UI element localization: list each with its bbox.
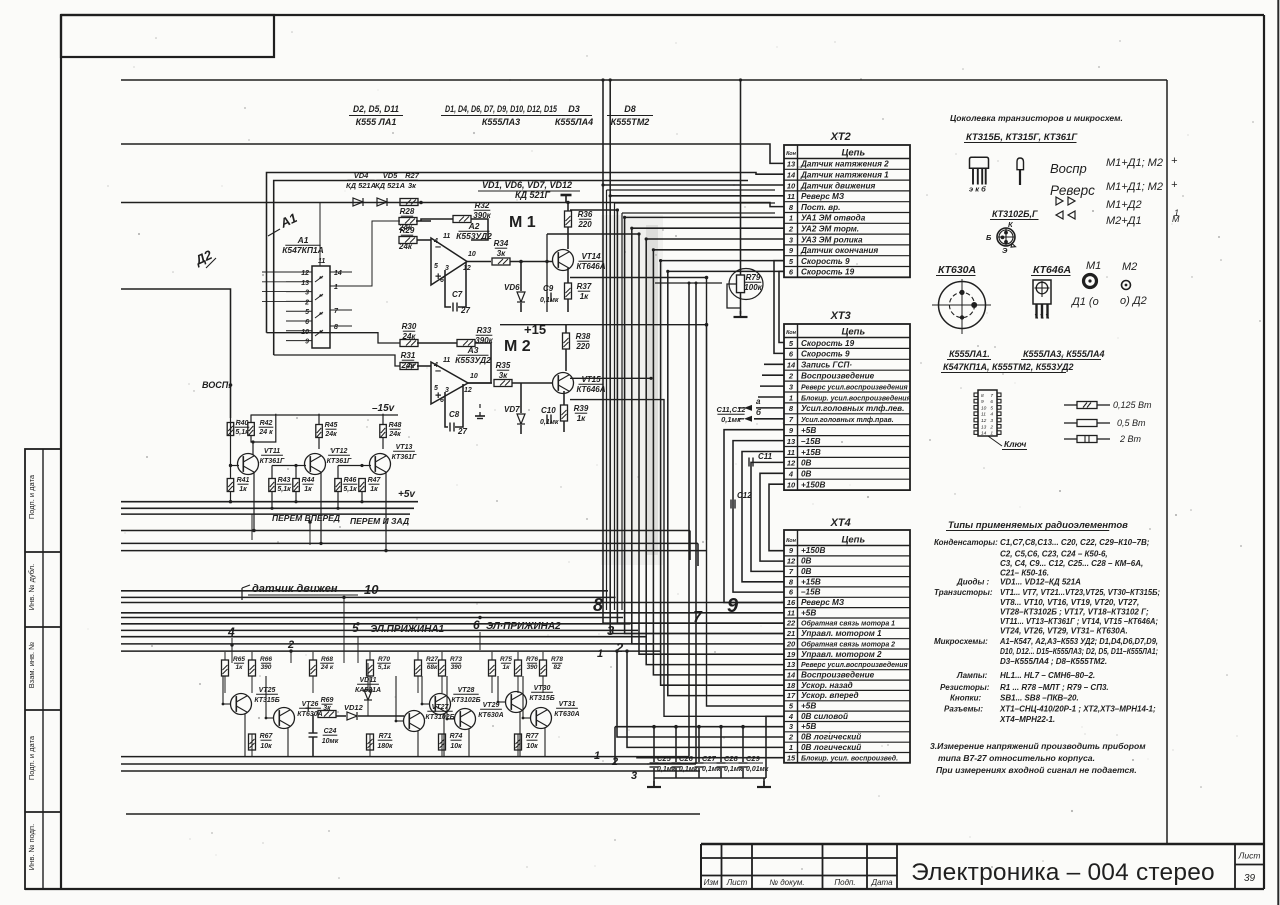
svg-text:10к: 10к [450, 743, 462, 750]
svg-text:220: 220 [575, 342, 590, 351]
svg-text:Э: Э [1002, 246, 1008, 255]
svg-text:4: 4 [788, 712, 794, 721]
svg-text:22: 22 [786, 619, 796, 628]
svg-text:Блокир. усил. воспроизвед.: Блокир. усил. воспроизвед. [801, 754, 898, 762]
svg-text:Пост. вр.: Пост. вр. [801, 203, 840, 212]
svg-text:К555ТМ2: К555ТМ2 [611, 117, 650, 127]
svg-text:0В: 0В [801, 557, 812, 566]
svg-text:+: + [1171, 179, 1178, 191]
svg-text:8: 8 [981, 393, 984, 399]
svg-text:Реверс МЗ: Реверс МЗ [801, 192, 845, 201]
svg-text:6: 6 [990, 399, 993, 405]
svg-text:+5В: +5В [801, 702, 816, 711]
svg-text:9: 9 [305, 339, 309, 346]
svg-text:R75: R75 [500, 656, 512, 663]
svg-text:Изм: Изм [704, 878, 719, 887]
svg-text:3: 3 [631, 770, 637, 782]
svg-text:Усил.головных тлф.лев.: Усил.головных тлф.лев. [801, 404, 904, 413]
svg-text:Электроника – 004 стерео: Электроника – 004 стерео [911, 859, 1215, 886]
svg-text:14: 14 [981, 431, 987, 437]
svg-text:2: 2 [287, 639, 294, 651]
svg-text:4: 4 [788, 470, 794, 479]
svg-text:6: 6 [440, 277, 444, 284]
svg-text:С3, С4, С9... С12, С25... С28: С3, С4, С9... С12, С25... С28 – КМ–6А, [1000, 559, 1143, 568]
svg-text:С26: С26 [679, 754, 694, 763]
svg-text:18: 18 [787, 681, 796, 690]
svg-text:С9: С9 [543, 284, 554, 293]
svg-text:Кон: Кон [786, 538, 797, 544]
svg-text:№ докум.: № докум. [769, 878, 804, 887]
svg-text:А3: А3 [467, 345, 479, 355]
svg-text:Д1 (о: Д1 (о [1070, 296, 1099, 308]
svg-text:2: 2 [788, 733, 794, 742]
svg-text:4: 4 [227, 625, 235, 639]
svg-text:+15В: +15В [801, 577, 821, 586]
svg-text:КД 521Г: КД 521Г [515, 190, 551, 200]
svg-text:М 2: М 2 [504, 338, 531, 355]
svg-text:220: 220 [577, 220, 592, 229]
svg-text:R73: R73 [450, 656, 462, 663]
svg-text:5: 5 [305, 309, 309, 316]
svg-text:КТ646А: КТ646А [576, 262, 605, 271]
svg-text:ХТ4: ХТ4 [830, 517, 851, 529]
svg-text:4: 4 [433, 362, 438, 369]
svg-text:12: 12 [981, 418, 987, 424]
svg-text:КТ315Б, КТ315Г, КТ361Г: КТ315Б, КТ315Г, КТ361Г [966, 132, 1078, 143]
svg-text:4: 4 [433, 238, 438, 245]
svg-text:Типы применяемых радиоэлементо: Типы применяемых радиоэлементов [948, 520, 1128, 531]
svg-text:R27: R27 [426, 656, 438, 663]
svg-text:VT15: VT15 [581, 375, 601, 384]
svg-text:15: 15 [787, 753, 796, 762]
svg-text:КТ3102Б,Г: КТ3102Б,Г [992, 209, 1038, 219]
svg-text:0В: 0В [801, 459, 812, 468]
svg-text:4: 4 [990, 412, 993, 418]
svg-text:Датчик окончания: Датчик окончания [800, 246, 878, 255]
svg-text:а: а [756, 397, 761, 406]
svg-text:КТ361Г: КТ361Г [392, 454, 417, 461]
svg-text:КТ630А: КТ630А [938, 264, 976, 276]
svg-text:+5В: +5В [801, 722, 816, 731]
svg-text:R35: R35 [496, 361, 511, 370]
svg-text:Управл. мотором 1: Управл. мотором 1 [801, 629, 882, 638]
svg-text:КТ315Б: КТ315Б [529, 695, 554, 702]
svg-text:12: 12 [787, 557, 796, 566]
svg-text:2 Вт: 2 Вт [1119, 434, 1142, 444]
svg-text:R38: R38 [576, 332, 591, 341]
svg-text:R76: R76 [526, 656, 538, 663]
svg-text:С8: С8 [449, 410, 460, 419]
svg-text:R77: R77 [526, 733, 540, 740]
svg-text:13: 13 [787, 160, 796, 169]
svg-text:Подп. и дата: Подп. и дата [27, 735, 36, 780]
svg-text:10: 10 [301, 329, 309, 336]
svg-text:3.Измерение напряжений произво: 3.Измерение напряжений производить прибо… [930, 741, 1146, 751]
svg-text:+15В: +15В [801, 448, 821, 457]
svg-text:11: 11 [318, 258, 325, 265]
svg-text:R34: R34 [494, 239, 509, 248]
svg-text:24 к: 24 к [320, 664, 334, 671]
svg-text:С10: С10 [541, 406, 556, 415]
svg-text:К553УД2: К553УД2 [455, 355, 491, 365]
svg-text:12: 12 [463, 265, 471, 272]
svg-text:R74: R74 [450, 733, 463, 740]
svg-text:5: 5 [990, 405, 993, 411]
svg-text:12: 12 [301, 270, 309, 277]
svg-text:20: 20 [786, 639, 796, 648]
svg-text:R43: R43 [278, 477, 291, 484]
svg-text:К555ЛА1.: К555ЛА1. [949, 349, 990, 359]
svg-text:D3: D3 [568, 104, 580, 114]
svg-text:13: 13 [787, 437, 796, 446]
svg-text:датчик движен: датчик движен [252, 583, 338, 595]
svg-text:10к: 10к [526, 743, 538, 750]
svg-text:КД 521А: КД 521А [346, 181, 376, 190]
svg-text:10мк: 10мк [322, 738, 339, 745]
svg-text:0,5 Вт: 0,5 Вт [1117, 418, 1146, 428]
svg-text:3к: 3к [408, 181, 417, 190]
svg-text:8: 8 [593, 595, 603, 615]
svg-text:КТ361Г: КТ361Г [260, 458, 285, 465]
svg-text:1: 1 [594, 750, 600, 762]
svg-text:1к: 1к [304, 486, 312, 493]
svg-text:VT25: VT25 [259, 687, 276, 694]
svg-text:11: 11 [443, 357, 450, 364]
svg-text:VD12: VD12 [344, 703, 364, 712]
svg-text:1: 1 [597, 648, 603, 660]
svg-text:11: 11 [787, 192, 795, 201]
svg-text:11: 11 [787, 608, 795, 617]
svg-text:ПЕРЕМ ВПЕРЕД: ПЕРЕМ ВПЕРЕД [272, 513, 340, 523]
svg-text:+150В: +150В [801, 481, 825, 490]
svg-text:2: 2 [989, 424, 993, 430]
svg-text:82: 82 [553, 664, 561, 671]
svg-text:11: 11 [443, 233, 450, 240]
svg-text:К555 ЛА1: К555 ЛА1 [356, 117, 397, 127]
svg-text:11: 11 [787, 448, 795, 457]
svg-text:R70: R70 [378, 656, 390, 663]
svg-text:Скорость 9: Скорость 9 [801, 350, 850, 359]
svg-text:С24: С24 [324, 728, 337, 735]
svg-text:16: 16 [787, 598, 796, 607]
svg-text:39: 39 [1244, 873, 1256, 884]
svg-text:Ключ: Ключ [1004, 439, 1026, 449]
svg-text:С29: С29 [746, 754, 761, 763]
svg-text:390: 390 [527, 664, 538, 671]
svg-text:1к: 1к [503, 664, 511, 671]
svg-text:390: 390 [261, 664, 272, 671]
svg-text:VT31: VT31 [559, 701, 576, 708]
svg-text:VT11: VT11 [264, 448, 280, 455]
svg-text:о) Д2: о) Д2 [1120, 295, 1147, 307]
svg-text:5,1к: 5,1к [343, 486, 357, 493]
svg-text:+150В: +150В [801, 546, 825, 555]
svg-text:М2: М2 [1122, 261, 1137, 273]
svg-text:0,1мк: 0,1мк [721, 415, 742, 424]
svg-text:КТ361Г: КТ361Г [327, 458, 352, 465]
svg-text:5: 5 [434, 385, 438, 392]
svg-text:КТ630А: КТ630А [478, 712, 503, 719]
svg-text:Запись ГСП·: Запись ГСП· [801, 361, 852, 370]
svg-text:КТ315Б: КТ315Б [254, 697, 279, 704]
svg-text:К555ЛА3: К555ЛА3 [482, 117, 520, 127]
svg-text:24 к: 24 к [258, 429, 273, 436]
svg-text:М1+Д1; М2: М1+Д1; М2 [1106, 181, 1163, 193]
svg-text:5: 5 [352, 621, 359, 635]
svg-text:типа В7-27 относительно корпус: типа В7-27 относительно корпуса. [938, 753, 1095, 763]
svg-text:3: 3 [305, 290, 309, 297]
svg-text:VD7: VD7 [504, 405, 520, 414]
svg-text:8: 8 [334, 324, 338, 331]
svg-text:Ускор. назад: Ускор. назад [801, 681, 853, 690]
svg-text:R28: R28 [400, 207, 415, 216]
svg-text:VT12: VT12 [331, 448, 348, 455]
svg-text:VT28: VT28 [458, 687, 475, 694]
svg-text:D3–К555ЛА4 ; D8–К555ТМ2.: D3–К555ЛА4 ; D8–К555ТМ2. [1000, 657, 1107, 666]
svg-text:Скорость 19: Скорость 19 [801, 268, 855, 277]
svg-text:Взам. инв. №: Взам. инв. № [27, 642, 36, 688]
svg-text:1к: 1к [580, 292, 589, 301]
svg-text:0В логический: 0В логический [801, 743, 861, 752]
svg-text:Реверс МЗ: Реверс МЗ [801, 598, 845, 607]
svg-text:К555ЛА3, К555ЛА4: К555ЛА3, К555ЛА4 [1023, 349, 1104, 359]
svg-text:6: 6 [440, 397, 444, 404]
svg-text:ЭЛ.ПРИЖИНА1: ЭЛ.ПРИЖИНА1 [370, 624, 445, 635]
svg-text:+: + [305, 703, 311, 715]
svg-text:1: 1 [334, 284, 338, 291]
svg-text:Обратная связь мотора 1: Обратная связь мотора 1 [801, 620, 895, 628]
svg-text:R69: R69 [321, 697, 334, 704]
svg-text:2: 2 [788, 225, 794, 234]
svg-text:2: 2 [611, 756, 618, 768]
svg-text:R71: R71 [379, 733, 392, 740]
svg-text:14: 14 [787, 671, 796, 680]
svg-text:КТ630А: КТ630А [554, 711, 579, 718]
svg-text:24к: 24к [324, 431, 337, 438]
svg-text:3: 3 [990, 418, 993, 424]
svg-text:390: 390 [451, 664, 462, 671]
svg-text:SB1... SB8 –ПКВ–20.: SB1... SB8 –ПКВ–20. [1000, 694, 1079, 703]
svg-text:R66: R66 [260, 656, 272, 663]
svg-text:С27: С27 [702, 754, 717, 763]
svg-text:Разъемы:: Разъемы: [944, 705, 983, 714]
svg-text:Инв. № подп.: Инв. № подп. [27, 824, 36, 870]
svg-text:100к: 100к [744, 283, 762, 292]
svg-text:0В логический: 0В логический [801, 733, 861, 742]
svg-text:R67: R67 [260, 733, 274, 740]
svg-text:R40: R40 [236, 420, 249, 427]
svg-text:Конденсаторы:: Конденсаторы: [934, 538, 998, 547]
svg-text:27: 27 [457, 427, 467, 436]
svg-text:Реверс: Реверс [1050, 183, 1095, 198]
svg-text:VD1... VD12–КД 521А: VD1... VD12–КД 521А [1000, 578, 1081, 587]
svg-text:–15В: –15В [801, 437, 821, 446]
svg-text:10: 10 [787, 481, 796, 490]
svg-text:VD5: VD5 [383, 171, 398, 180]
svg-text:Усил.головных тлф.прав.: Усил.головных тлф.прав. [801, 417, 894, 424]
svg-text:14: 14 [787, 361, 796, 370]
svg-text:7: 7 [693, 609, 703, 626]
svg-text:12: 12 [787, 459, 796, 468]
svg-text:R31: R31 [401, 351, 416, 360]
svg-text:1: 1 [789, 393, 793, 402]
svg-text:+5v: +5v [398, 489, 416, 500]
svg-text:R45: R45 [325, 422, 338, 429]
svg-text:А1: А1 [297, 235, 309, 245]
svg-text:Управл. мотором 2: Управл. мотором 2 [801, 650, 882, 659]
svg-text:М 1: М 1 [509, 214, 536, 231]
svg-text:R48: R48 [389, 422, 402, 429]
svg-text:ВОСП.: ВОСП. [202, 380, 231, 390]
svg-text:С7: С7 [452, 290, 463, 299]
svg-text:С12: С12 [737, 491, 752, 500]
svg-text:Цоколевка транзисторов и микро: Цоколевка транзисторов и микросхем. [950, 113, 1123, 123]
svg-text:R42: R42 [260, 420, 273, 427]
svg-text:Б: Б [986, 233, 992, 242]
svg-text:R39: R39 [574, 404, 589, 413]
svg-text:R78: R78 [551, 656, 563, 663]
svg-text:19: 19 [787, 650, 796, 659]
svg-text:5,1к: 5,1к [235, 429, 249, 436]
svg-text:М1: М1 [1086, 260, 1101, 272]
svg-text:R1 ... R78 –МЛТ ; R79 – СП3.: R1 ... R78 –МЛТ ; R79 – СП3. [1000, 683, 1109, 692]
svg-text:2: 2 [788, 372, 794, 381]
svg-text:КТ646А: КТ646А [1033, 264, 1071, 276]
svg-text:С11,С12: С11,С12 [716, 405, 746, 414]
svg-text:D1, D4, D6, D7, D9, D10, D12,: D1, D4, D6, D7, D9, D10, D12, D15 [445, 104, 558, 114]
svg-text:R27: R27 [405, 171, 420, 180]
svg-text:Подп.: Подп. [834, 878, 855, 887]
svg-text:13: 13 [787, 660, 796, 669]
svg-text:–15В: –15В [801, 588, 821, 597]
svg-text:УА2 ЭМ торм.: УА2 ЭМ торм. [801, 225, 859, 234]
svg-text:17: 17 [787, 691, 796, 700]
svg-text:Воспроизведение: Воспроизведение [801, 671, 875, 680]
svg-text:1: 1 [990, 431, 993, 437]
svg-text:5: 5 [434, 263, 438, 270]
svg-text:ЭЛ·ПРИЖИНА2: ЭЛ·ПРИЖИНА2 [486, 621, 561, 632]
svg-text:–15v: –15v [372, 403, 396, 414]
svg-text:R46: R46 [344, 477, 357, 484]
svg-text:R33: R33 [477, 326, 492, 335]
svg-text:КТ646А: КТ646А [576, 385, 605, 394]
svg-text:С25: С25 [657, 754, 672, 763]
svg-text:3к: 3к [323, 705, 331, 712]
svg-text:Диоды :: Диоды : [956, 578, 990, 587]
svg-text:С28: С28 [724, 754, 739, 763]
svg-text:VT11... VT13–КТ361Г ; VT14, V: VT11... VT13–КТ361Г ; VT14, VT15 –КТ646А… [1000, 617, 1158, 626]
svg-text:э к б: э к б [969, 185, 986, 194]
svg-text:5,1к: 5,1к [378, 664, 391, 671]
svg-text:М1+Д1; М2: М1+Д1; М2 [1106, 157, 1163, 169]
svg-text:R29: R29 [400, 226, 415, 235]
svg-text:ПЕРЕМ И ЗАД: ПЕРЕМ И ЗАД [350, 516, 409, 526]
svg-text:VD4: VD4 [354, 171, 369, 180]
svg-text:Дата: Дата [870, 878, 893, 887]
svg-text:Реверс усил.воспроизведения: Реверс усил.воспроизведения [801, 661, 908, 669]
svg-text:ХТ3: ХТ3 [830, 310, 851, 322]
svg-text:13: 13 [301, 280, 309, 287]
svg-text:HL1... HL7 – СМН6–80–2.: HL1... HL7 – СМН6–80–2. [1000, 671, 1095, 680]
svg-text:М2+Д1: М2+Д1 [1106, 215, 1142, 227]
svg-text:К547КП1А: К547КП1А [282, 245, 324, 255]
svg-text:VD6: VD6 [504, 283, 520, 292]
svg-text:10: 10 [364, 582, 379, 597]
svg-text:0В силовой: 0В силовой [801, 712, 848, 721]
svg-text:VT30: VT30 [534, 685, 551, 692]
svg-text:УА3 ЭМ ролика: УА3 ЭМ ролика [801, 235, 863, 244]
svg-text:R36: R36 [578, 210, 593, 219]
svg-text:Датчик движения: Датчик движения [800, 181, 875, 190]
svg-text:R68: R68 [321, 656, 333, 663]
svg-text:Блокир. усил.воспроизведения: Блокир. усил.воспроизведения [801, 394, 911, 402]
svg-text:R44: R44 [302, 477, 315, 484]
svg-text:10к: 10к [260, 743, 272, 750]
svg-text:А1–К547, А2,А3–К553 УД2; D1,D: А1–К547, А2,А3–К553 УД2; D1,D4,D6,D7,D9, [999, 637, 1158, 646]
svg-text:9: 9 [727, 595, 739, 617]
svg-text:Подп. и дата: Подп. и дата [27, 474, 36, 519]
svg-text:Скорость 9: Скорость 9 [801, 257, 850, 266]
svg-text:Воспроизведение: Воспроизведение [801, 372, 875, 381]
svg-text:С21– К50-16.: С21– К50-16. [1000, 569, 1049, 578]
svg-text:УА1 ЭМ отвода: УА1 ЭМ отвода [801, 214, 866, 223]
svg-text:М1+Д2: М1+Д2 [1106, 199, 1142, 211]
svg-text:Реверс усил.воспроизведения: Реверс усил.воспроизведения [801, 383, 908, 391]
svg-text:10: 10 [787, 181, 796, 190]
svg-text:3: 3 [607, 623, 615, 638]
svg-text:Обратная связь мотора 2: Обратная связь мотора 2 [801, 640, 895, 648]
svg-text:68к: 68к [427, 664, 438, 671]
svg-text:Датчик натяжения 2: Датчик натяжения 2 [800, 160, 889, 169]
svg-text:VT28–КТ3102Б ; VT17, VT18–КТ3: VT28–КТ3102Б ; VT17, VT18–КТ3102 Г; [1000, 608, 1149, 617]
svg-text:Кнопки:: Кнопки: [950, 694, 981, 703]
svg-text:С1,С7,С8,С13... С20, С22, С29–: С1,С7,С8,С13... С20, С22, С29–К10–7В; [1000, 538, 1150, 547]
svg-text:ХТ2: ХТ2 [830, 131, 851, 143]
svg-text:0В: 0В [801, 470, 812, 479]
svg-text:6: 6 [305, 319, 309, 326]
svg-text:Микросхемы:: Микросхемы: [934, 637, 988, 646]
svg-text:R47: R47 [368, 477, 382, 484]
svg-text:14: 14 [334, 270, 342, 277]
svg-text:9: 9 [981, 399, 984, 405]
svg-text:К547КП1А, К555ТМ2, К553УД2: К547КП1А, К555ТМ2, К553УД2 [943, 362, 1074, 372]
svg-text:Воспр: Воспр [1050, 161, 1087, 176]
svg-text:2: 2 [304, 299, 309, 306]
svg-text:11: 11 [981, 412, 986, 418]
svg-text:Цепь: Цепь [841, 327, 865, 338]
svg-text:1: 1 [1174, 208, 1179, 218]
svg-text:Цепь: Цепь [841, 148, 865, 159]
svg-text:К555ЛА4: К555ЛА4 [555, 117, 593, 127]
svg-text:КТ3102Б: КТ3102Б [451, 697, 480, 704]
svg-text:ХТ4–МРН22-1.: ХТ4–МРН22-1. [999, 715, 1055, 724]
svg-text:Скорость 19: Скорость 19 [801, 339, 855, 348]
svg-text:13: 13 [981, 424, 987, 430]
svg-text:Ускор. вперед: Ускор. вперед [801, 691, 859, 700]
svg-text:VT8... VT10, VT16, VT1: VT8... VT10, VT16, VT19, VT20, VT27, [1000, 598, 1139, 607]
svg-text:D10, D12... D15–К555ЛА3; D2, D: D10, D12... D15–К555ЛА3; D2, D5, D11–К55… [1000, 647, 1158, 656]
svg-text:Инв. № дубл.: Инв. № дубл. [27, 564, 36, 610]
svg-text:0В: 0В [801, 567, 812, 576]
svg-text:1к: 1к [239, 486, 247, 493]
svg-text:Цепь: Цепь [841, 535, 865, 546]
svg-text:+: + [1171, 155, 1178, 167]
svg-text:0,1мк: 0,1мк [540, 419, 559, 426]
svg-text:6: 6 [473, 618, 480, 632]
svg-text:При измерениях входной сигнал: При измерениях входной сигнал не подаетс… [936, 765, 1137, 775]
svg-text:ХТ1–СНЦ-410/20Р-1 ; ХТ2,ХТ3–МР: ХТ1–СНЦ-410/20Р-1 ; ХТ2,ХТ3–МРН14-1; [999, 705, 1156, 714]
svg-text:D8: D8 [624, 104, 636, 114]
